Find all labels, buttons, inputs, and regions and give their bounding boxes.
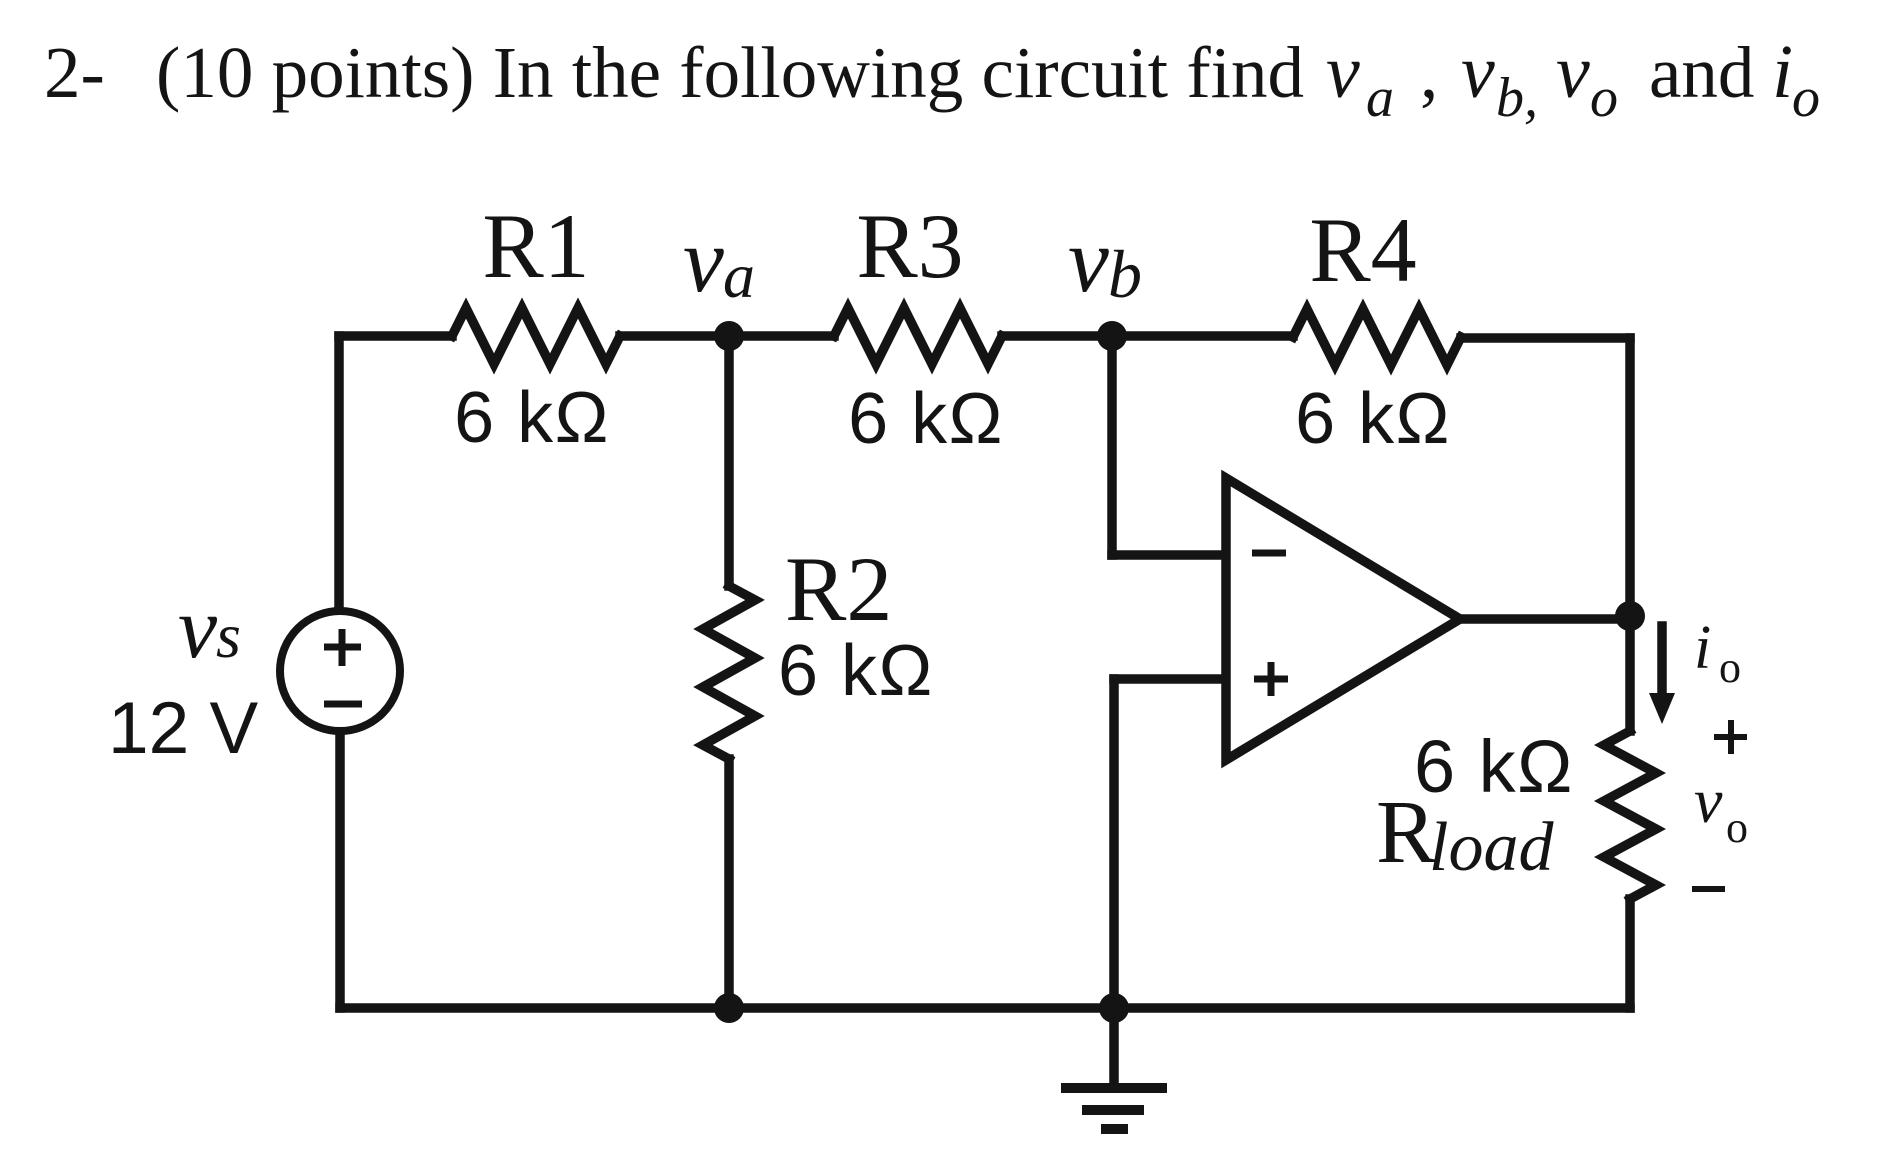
svg-text:o: o: [1590, 67, 1618, 129]
label + inside source: [324, 629, 361, 666]
wire left rail lower: [335, 735, 345, 1008]
wire R3 to node vb: [1002, 331, 1112, 341]
op-amp U1: [1226, 478, 1460, 760]
svg-text:6 kΩ: 6 kΩ: [454, 378, 610, 458]
wire Rload to bottom-right corner: [1625, 899, 1635, 1008]
svg-text:v: v: [1326, 30, 1360, 114]
op-amp non-inverting input marker +: [1254, 662, 1288, 696]
wire R4 to top-right corner: [1461, 333, 1630, 343]
bottom wire: [340, 1003, 1630, 1013]
ground stub wire: [1109, 1008, 1119, 1088]
wire to inverting input: [1112, 550, 1226, 560]
svg-text:v: v: [1068, 209, 1109, 311]
resistor R3: [834, 308, 1002, 364]
svg-text:,: ,: [1420, 32, 1438, 113]
svg-text:o: o: [1726, 803, 1748, 852]
svg-text:R3: R3: [856, 195, 963, 297]
wire left rail upper: [334, 336, 344, 608]
svg-text:6 kΩ: 6 kΩ: [848, 379, 1004, 459]
voltage source vs 12 V: [280, 611, 400, 731]
resistor Rload: [1604, 731, 1656, 899]
svg-text:o: o: [1719, 643, 1741, 692]
svg-text:i: i: [1694, 614, 1711, 682]
wire top-left segment: [339, 331, 452, 341]
node output junction: [1615, 601, 1645, 631]
svg-text:v: v: [178, 580, 218, 677]
node va: [714, 321, 744, 351]
svg-text:2-: 2-: [44, 32, 105, 113]
wire right rail upper: [1625, 338, 1635, 618]
svg-text:v: v: [1461, 30, 1495, 114]
svg-text:6 kΩ: 6 kΩ: [778, 631, 934, 711]
wire node vb down: [1107, 336, 1117, 555]
op-amp inverting input marker -: [1252, 550, 1286, 557]
wire node va down to R2: [724, 336, 734, 586]
svg-text:v: v: [683, 209, 724, 311]
ground symbol: [1061, 1088, 1167, 1129]
svg-text:and: and: [1649, 32, 1754, 113]
wire node vb to R4: [1112, 331, 1293, 341]
svg-text:i: i: [1772, 30, 1793, 114]
wire R2 to bottom junction: [724, 759, 734, 1008]
svg-text:6 kΩ: 6 kΩ: [1295, 379, 1451, 459]
svg-text:R1: R1: [482, 195, 589, 297]
resistor R2: [703, 586, 755, 759]
wire non-inverting branch down to ground junction: [1109, 679, 1119, 1008]
svg-text:12 V: 12 V: [108, 688, 258, 769]
label - inside source: [324, 701, 362, 708]
svg-text:b: b: [1108, 236, 1142, 312]
svg-text:s: s: [216, 600, 241, 671]
svg-text:v: v: [1556, 30, 1590, 114]
svg-text:(10 points) In the following c: (10 points) In the following circuit fin…: [156, 32, 1304, 113]
svg-text:load: load: [1429, 809, 1554, 886]
svg-text:6 kΩ: 6 kΩ: [1414, 725, 1574, 808]
wire to non-inverting input: [1114, 674, 1226, 684]
node ground junction: [1099, 993, 1129, 1023]
svg-text:b,: b,: [1496, 67, 1538, 129]
current arrow io: [1649, 626, 1675, 724]
wire R1 to node va: [620, 331, 729, 341]
resistor R4: [1293, 309, 1461, 365]
svg-text:a: a: [723, 240, 755, 311]
label + (vo polarity): [1714, 720, 1747, 754]
node R2 bottom junction: [714, 993, 744, 1023]
wire right rail to Rload: [1625, 618, 1635, 731]
resistor R1: [452, 308, 620, 364]
label - (vo polarity): [1692, 886, 1725, 892]
svg-text:a: a: [1366, 67, 1394, 129]
node vb: [1097, 321, 1127, 351]
svg-text:R2: R2: [785, 538, 892, 640]
svg-text:v: v: [1694, 765, 1723, 836]
wire node va to R3: [729, 331, 834, 341]
svg-text:o: o: [1792, 67, 1820, 129]
wire op-amp output: [1460, 614, 1630, 624]
svg-text:R4: R4: [1309, 199, 1416, 301]
